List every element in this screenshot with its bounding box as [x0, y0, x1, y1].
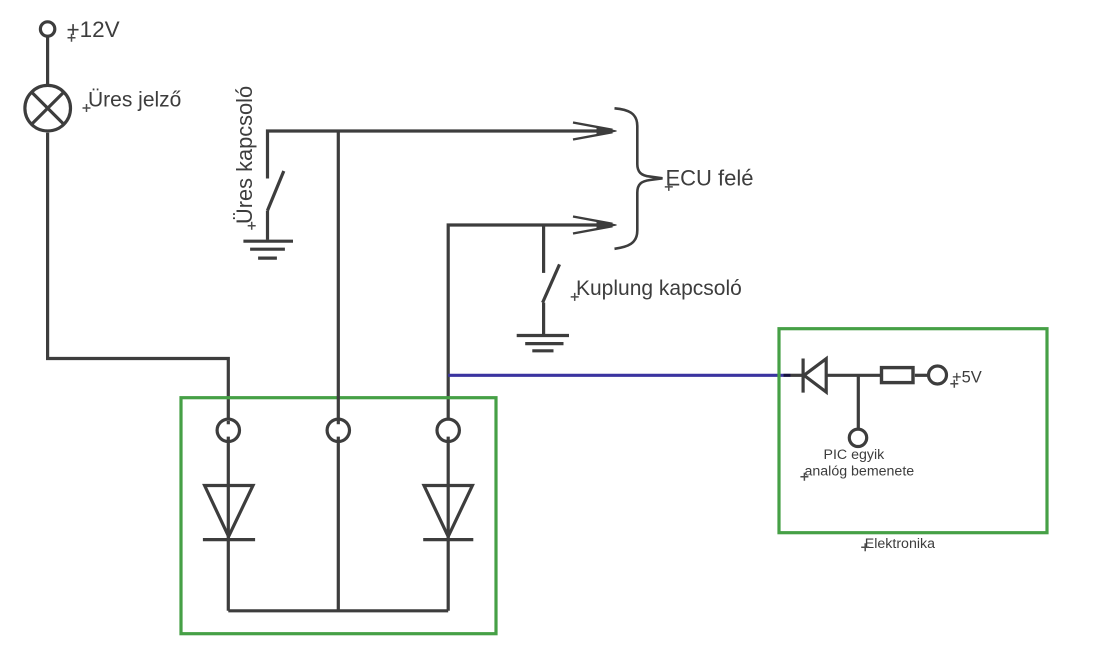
wire switch to ground	[542, 303, 545, 334]
svg-text:Elektronika: Elektronika	[865, 536, 935, 552]
terminal +12V	[40, 22, 54, 36]
wire from lamp down and right to left diode terminal	[48, 133, 229, 425]
lamp Üres jelző	[25, 85, 71, 131]
wire left terminal through diode D1 to bottom rail	[227, 437, 230, 611]
anchor cross of Üres jelző label	[83, 104, 91, 112]
svg-text:ECU felé: ECU felé	[666, 166, 754, 191]
wire top horizontal to ECU arrow 1	[268, 131, 609, 179]
terminal +5V	[929, 366, 947, 384]
label +5V	[952, 369, 982, 387]
svg-text:Üres kapcsoló: Üres kapcsoló	[232, 86, 257, 224]
anchor cross of +5V label	[950, 380, 958, 388]
wire junction down to PIC input terminal	[857, 375, 860, 433]
wire R1 to +5V terminal	[915, 374, 930, 377]
wire Kuplung switch drop	[542, 225, 545, 273]
svg-text:Kuplung kapcsoló: Kuplung kapcsoló	[576, 277, 742, 300]
svg-text:PIC egyik: PIC egyik	[824, 447, 886, 463]
blue wire to Elektronika	[448, 374, 783, 377]
anchor cross of Üres kapcsoló label	[248, 222, 256, 230]
node terminal right	[437, 419, 459, 441]
diode D3 (points left)	[803, 359, 826, 393]
anchor cross of +12V label	[68, 34, 76, 42]
arrow to ECU (bottom)	[573, 217, 617, 234]
blue wire end cap	[784, 374, 791, 377]
label Elektronika	[865, 536, 935, 552]
ground of Kuplung kapcsoló	[517, 336, 569, 351]
node terminal left	[217, 419, 239, 441]
anchor cross of ECU felé label	[665, 183, 673, 191]
wire switch to ground	[266, 211, 269, 240]
box of diode matrix (green)	[181, 398, 496, 634]
svg-text:Üres jelző: Üres jelző	[88, 89, 181, 112]
anchor cross of analóg bemenete label	[800, 473, 808, 481]
label +12V	[67, 17, 120, 42]
wire into diode D3	[791, 374, 803, 377]
box Elektronika (green)	[779, 329, 1047, 533]
label Kuplung kapcsoló	[576, 277, 742, 300]
wire from +12V terminal to lamp	[46, 37, 49, 85]
label ECU felé	[666, 166, 754, 191]
wire stub into left terminal	[227, 421, 230, 424]
switch Kuplung kapcsoló blade	[543, 264, 560, 302]
switch Üres kapcsoló blade	[268, 171, 284, 211]
wire D3 to resistor R1	[826, 374, 880, 377]
brace ECU felé	[615, 108, 663, 249]
wire second horizontal to ECU arrow 2	[448, 225, 608, 425]
anchor cross of Kuplung kapcsoló label	[571, 293, 579, 301]
arrow to ECU (top)	[573, 123, 617, 140]
resistor R1	[882, 368, 914, 383]
wire middle vertical	[337, 131, 340, 611]
label Üres kapcsoló (vertical)	[232, 86, 257, 224]
svg-text:analóg bemenete: analóg bemenete	[805, 464, 915, 480]
anchor cross of Elektronika label	[861, 543, 869, 551]
label analóg bemenete	[805, 464, 915, 480]
diode D2	[423, 486, 473, 540]
label PIC egyik	[824, 447, 886, 463]
node terminal middle	[327, 419, 349, 441]
wire right terminal through diode D2 to bottom rail	[447, 437, 450, 611]
wire bottom rail	[228, 609, 448, 612]
label Üres jelző	[88, 89, 181, 112]
ground of Üres kapcsoló	[243, 241, 293, 258]
diode D1	[203, 486, 255, 540]
terminal PIC input	[849, 429, 866, 446]
